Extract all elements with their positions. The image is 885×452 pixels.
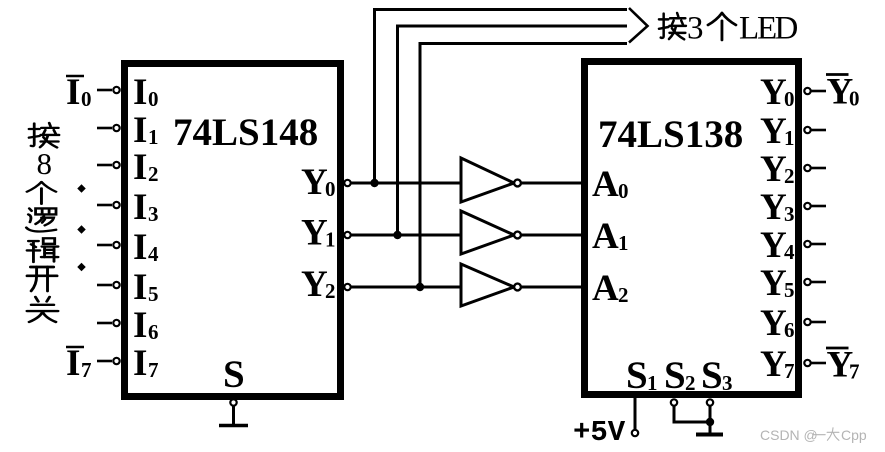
label S2 [664,354,696,397]
logic low bar right [696,433,723,437]
pin I5 stub [97,282,120,288]
label Y2 left chip [301,264,336,305]
svg-text:Y: Y [760,344,787,385]
label S3 [701,354,733,397]
label A0 [592,164,629,205]
junction dot Y1 [393,231,401,239]
label I3 inside [133,187,159,228]
svg-text:Y: Y [301,213,328,254]
char jie [29,123,59,147]
svg-text:7: 7 [81,358,92,382]
char guan [27,297,58,322]
svg-text:3: 3 [784,202,795,226]
svg-text:Y: Y [760,225,787,266]
pin S3 circle and wire [707,399,713,433]
svg-text:3: 3 [148,202,159,226]
wire Y0 riser [375,10,628,184]
svg-text:Y: Y [760,303,787,344]
svg-text:0: 0 [148,87,159,111]
svg-text:6: 6 [148,320,159,344]
svg-text:I: I [133,110,147,151]
pin Y7 output U3 [804,360,826,366]
label I5 inside [133,267,159,308]
svg-text:D: D [775,11,799,47]
char luo [26,208,56,231]
svg-text:2: 2 [618,283,629,307]
svg-text:4: 4 [148,242,159,266]
svg-text:I: I [66,72,80,113]
svg-text:I: I [133,227,147,268]
wire Y1 to inverter [351,234,461,237]
svg-text:A: A [592,216,619,257]
inverter U2A [461,158,581,202]
label Y0 inside U3 [760,72,795,113]
char ji [27,238,58,262]
label I7-bar external [66,343,92,384]
wire Y0 to inverter [351,182,461,185]
svg-text:CSDN @: CSDN @ [760,427,818,443]
chip U1 74LS148 body [125,64,341,397]
wire S2-S3 [674,421,710,424]
svg-text:S: S [701,354,723,397]
svg-text:1: 1 [784,126,795,150]
pin Y3 output U3 [804,203,826,209]
junction dot Y2 [416,283,424,291]
svg-text:6: 6 [784,318,795,342]
pin I1 stub [97,125,120,131]
svg-text:0: 0 [618,179,629,203]
pin Y0 output U3 [804,88,826,94]
pin Y1 circle [344,232,350,238]
svg-text:0: 0 [325,177,336,201]
svg-text:74LS138: 74LS138 [598,113,743,156]
svg-text:0: 0 [81,87,92,111]
svg-text:Y: Y [301,264,328,305]
wire S to low [232,406,235,424]
wire Y2 to inverter [351,286,461,289]
label Y2 inside U3 [760,149,795,190]
chip U3 74LS138 body [585,62,799,395]
label A2 [592,268,629,309]
svg-text:7: 7 [849,360,860,384]
svg-text:2: 2 [784,164,795,188]
label I0-bar external [66,72,92,113]
vertical caption: connect 8 logic switches [26,123,59,322]
char ge [27,182,56,204]
label Y6 inside U3 [760,303,795,344]
svg-text:8: 8 [37,146,53,181]
svg-text:I: I [133,305,147,346]
pin I6 stub [97,320,120,326]
label Y0-bar external [826,72,860,113]
svg-text:Y: Y [760,111,787,152]
pin I4 stub [97,242,120,248]
label I1 inside [133,110,159,151]
svg-text:1: 1 [148,125,159,149]
pin Y2 circle [344,284,350,290]
svg-text:7: 7 [148,358,159,382]
svg-text:0: 0 [849,87,860,111]
label Y1 inside U3 [760,111,795,152]
svg-text:1: 1 [325,228,336,252]
svg-text:3: 3 [722,371,733,395]
svg-text:Y: Y [760,263,787,304]
ellipsis diamond 2 [77,225,85,233]
ellipsis diamond 1 [77,184,85,192]
svg-text:Y: Y [760,149,787,190]
label I6 inside [133,305,159,346]
pin I3 stub [97,202,120,208]
svg-text:S: S [626,354,648,397]
svg-text:Cpp: Cpp [841,427,867,443]
wire Y2 riser [420,44,627,288]
svg-text:0: 0 [784,87,795,111]
svg-text:Y: Y [760,187,787,228]
label Y7 inside U3 [760,344,795,385]
pin I7 stub [97,358,120,364]
inverter U2B [461,211,581,254]
pin Y4 output U3 [804,241,826,247]
label S1 [626,354,658,397]
svg-text:S: S [664,354,686,397]
label I2 inside [133,147,159,188]
pin S1 wire to +5V [634,398,637,430]
pin S circle [230,399,236,405]
svg-text:1: 1 [647,371,658,395]
pin Y5 output U3 [804,279,826,285]
arrow to LEDs [629,8,648,43]
svg-text:I: I [133,343,147,384]
pin S2 circle and wire [671,399,677,423]
pin I0 stub [97,87,120,93]
junction dot S3 [706,418,714,426]
label I7 inside [133,343,159,384]
svg-text:+5V: +5V [573,416,626,449]
char kai [27,267,57,291]
svg-text:I: I [133,187,147,228]
svg-text:I: I [133,147,147,188]
svg-text:I: I [133,72,147,113]
svg-text:Y: Y [301,162,328,203]
label I4 inside [133,227,159,268]
junction dot Y0 [370,179,378,187]
svg-text:S: S [223,353,245,396]
label Y0 left chip [301,162,336,203]
svg-text:A: A [592,164,619,205]
pin Y6 output U3 [804,319,826,325]
label I0 inside [133,72,159,113]
ellipsis diamond 3 [77,263,85,271]
watermark CSDN [760,427,867,443]
svg-text:A: A [592,268,619,309]
label Y1 left chip [301,213,336,254]
label A1 [592,216,629,257]
pin I2 stub [97,162,120,168]
svg-text:3: 3 [687,11,704,47]
logic low bar left [219,424,248,428]
svg-text:7: 7 [784,359,795,383]
label Y7-bar external [826,345,860,386]
svg-text:4: 4 [784,240,795,264]
svg-text:1: 1 [618,231,629,255]
label Y3 inside U3 [760,187,795,228]
svg-text:2: 2 [325,279,336,303]
svg-text:5: 5 [148,282,159,306]
label Y4 inside U3 [760,225,795,266]
pin Y2 output U3 [804,165,826,171]
svg-text:2: 2 [148,162,159,186]
pin Y0 circle [344,180,350,186]
pin Y1 output U3 [804,127,826,133]
svg-text:74LS148: 74LS148 [173,111,318,154]
svg-text:2: 2 [685,371,696,395]
caption: connect 3 LEDs [659,11,798,47]
svg-text:5: 5 [784,278,795,302]
inverter U2C [461,264,581,306]
wire Y1 riser [398,26,628,235]
label Y5 inside U3 [760,263,795,304]
svg-text:Y: Y [760,72,787,113]
svg-text:I: I [133,267,147,308]
svg-text:I: I [66,343,80,384]
